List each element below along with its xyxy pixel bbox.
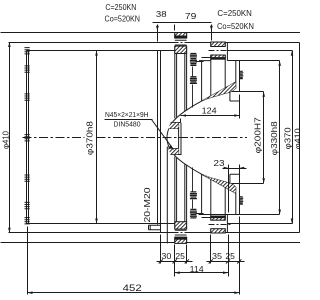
dim 38-79 line <box>153 23 213 42</box>
bolt stud 2 <box>190 77 197 84</box>
flange B2 right edge <box>225 42 227 233</box>
svg-text:DIN5480: DIN5480 <box>114 120 141 129</box>
bell wall right step upper <box>230 61 239 101</box>
svg-text:38: 38 <box>156 10 167 19</box>
phi410 top edge <box>9 42 175 44</box>
bore top edge phi200 <box>230 91 264 93</box>
bolt stud 1 <box>190 54 197 66</box>
spline bore bottom <box>169 148 179 150</box>
dim 452 <box>28 227 240 295</box>
phi410 bottom edge <box>9 232 175 234</box>
main centerline <box>23 137 85 139</box>
spline bore end vertical <box>157 51 159 225</box>
svg-text:79: 79 <box>185 12 197 21</box>
svg-text:20-M20: 20-M20 <box>143 187 152 223</box>
plug bolt right bottom <box>240 197 244 204</box>
svg-text:C=250KN: C=250KN <box>217 8 252 18</box>
bell outer curve <box>167 82 236 193</box>
bolt connector line lower <box>196 213 204 215</box>
bolt stud 4 <box>190 209 197 218</box>
housing right face vertical <box>160 51 162 233</box>
flange B1 top section <box>175 33 187 54</box>
boss right bottom surface phi330 <box>199 214 280 216</box>
svg-text:Co=520KN: Co=520KN <box>105 13 141 23</box>
flange B2 top section <box>211 42 225 59</box>
svg-text:124: 124 <box>202 106 218 115</box>
bolt stud 3 <box>190 192 197 199</box>
svg-text:N45×2×21×9H: N45×2×21×9H <box>105 110 149 119</box>
lower hatch boundary line left upper <box>202 57 211 59</box>
spline tip hatch bottom <box>168 149 179 155</box>
flange B1 bolt hole top <box>175 40 187 45</box>
right face vertical upper <box>239 61 241 92</box>
dim 124 <box>181 95 240 123</box>
left face outer line <box>26 51 28 224</box>
svg-text:452: 452 <box>123 283 142 293</box>
left face inner line <box>28 51 30 224</box>
svg-text:C=250KN: C=250KN <box>105 2 136 12</box>
bell wall right step lower <box>230 174 239 214</box>
flange B2 left edge <box>210 42 212 233</box>
svg-text:φ370: φ370 <box>284 127 293 150</box>
bolt hole centerline B2 top <box>209 50 231 52</box>
face thread marks left <box>25 48 30 224</box>
flange B1 bolt hole bottom <box>175 230 187 235</box>
boss right top surface phi330 <box>228 60 280 62</box>
boss left lower <box>199 174 211 214</box>
bolt connector line upper <box>196 61 204 63</box>
phi370 bottom edge <box>27 223 175 225</box>
svg-text:φ200H7: φ200H7 <box>253 117 262 154</box>
lower hatch boundary line left lower <box>202 217 211 219</box>
inner rim edge bottom half <box>166 147 168 244</box>
right face vertical lower <box>239 184 241 215</box>
bell inner curve upper <box>202 92 230 101</box>
M20 tapped hole bottom section <box>149 225 161 230</box>
bolt hole centerline B2 bottom <box>209 224 231 226</box>
spline bore top <box>169 128 179 130</box>
stud line upper <box>192 67 194 77</box>
stud line lower <box>192 168 194 192</box>
flange B1 right edge <box>186 33 188 244</box>
svg-text:Co=520KN: Co=520KN <box>217 21 254 31</box>
svg-text:23: 23 <box>214 159 226 168</box>
flange B1 inner edge lines <box>177 46 185 229</box>
dim 30-25 ticks <box>157 235 193 277</box>
spline tip bottom face <box>171 154 182 156</box>
flange B1 left edge <box>174 33 176 244</box>
boss left upper <box>199 61 211 101</box>
spline note leader <box>105 120 174 150</box>
dim phi370 <box>291 51 294 224</box>
spline tip top face <box>171 122 181 124</box>
dim phi370h8 line <box>95 51 98 224</box>
svg-text:114: 114 <box>190 265 205 274</box>
outer ring bottom edge full width <box>1 242 301 244</box>
svg-text:25: 25 <box>175 252 185 261</box>
dim phi200H7 <box>262 92 265 184</box>
plug bolt right top <box>240 71 244 78</box>
svg-text:φ410: φ410 <box>1 130 10 149</box>
dim 35-25 ticks <box>207 217 245 295</box>
spline tip right edges <box>179 123 181 155</box>
svg-text:φ370h8: φ370h8 <box>86 120 95 155</box>
spline tip hatch top <box>168 123 179 129</box>
bell wall hatch lower <box>202 174 236 193</box>
svg-text:φ330h8: φ330h8 <box>270 121 279 156</box>
flange B2 bottom section <box>211 216 225 233</box>
outer ring top edge full width <box>1 32 301 34</box>
svg-text:30: 30 <box>161 252 172 261</box>
svg-text:35: 35 <box>212 252 223 261</box>
dim 114 <box>175 271 229 274</box>
dim phi410 line <box>8 42 11 233</box>
dim phi330h8 <box>278 61 281 215</box>
bore bottom edge phi200 <box>230 183 264 185</box>
flange B1 bottom section <box>175 222 187 244</box>
svg-text:25: 25 <box>225 252 235 261</box>
bell inner curve lower <box>202 174 230 183</box>
dim 23 <box>223 165 247 213</box>
svg-text:φ410: φ410 <box>294 128 301 150</box>
bolt hole centerline B1 bottom <box>173 232 190 234</box>
dim phi410 right <box>299 43 301 233</box>
bell wall hatch upper <box>202 82 236 101</box>
phi370 top edge <box>27 50 175 52</box>
bolt hole centerline B1 <box>173 42 190 44</box>
